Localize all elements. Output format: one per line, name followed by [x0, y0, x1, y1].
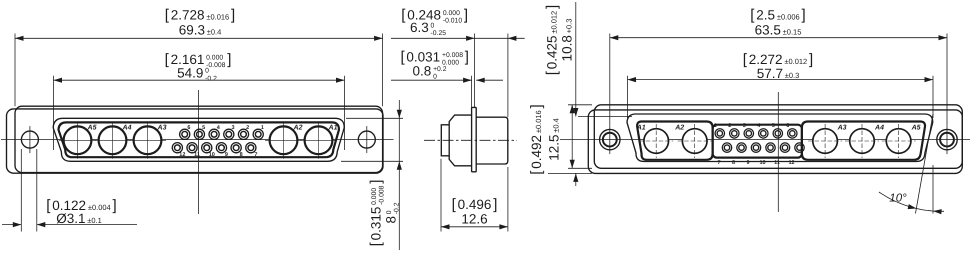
svg-text:]: ] — [368, 180, 385, 184]
svg-text:]: ] — [809, 51, 813, 68]
svg-text:±0.3: ±0.3 — [785, 71, 800, 80]
svg-text:+0.2: +0.2 — [433, 66, 447, 73]
svg-text:2: 2 — [246, 125, 249, 131]
svg-text:9: 9 — [225, 152, 228, 158]
svg-text:]: ] — [528, 104, 545, 108]
svg-text:A3: A3 — [837, 125, 847, 132]
svg-text:-0.2: -0.2 — [394, 202, 401, 214]
svg-text:11: 11 — [774, 160, 780, 166]
svg-text:1: 1 — [714, 123, 717, 129]
svg-text:2.272: 2.272 — [749, 52, 783, 67]
svg-text:+0.008: +0.008 — [442, 52, 463, 59]
svg-text:A3: A3 — [157, 124, 167, 131]
svg-text:0.000: 0.000 — [371, 188, 378, 205]
svg-text:12.6: 12.6 — [461, 211, 487, 226]
svg-text:3: 3 — [231, 125, 234, 131]
svg-text:2.728: 2.728 — [171, 8, 205, 23]
svg-text:]: ] — [464, 7, 468, 24]
svg-text:0.492: 0.492 — [529, 135, 544, 169]
svg-text:A1: A1 — [328, 124, 338, 131]
svg-text:±0.012: ±0.012 — [784, 57, 807, 66]
svg-text:11: 11 — [194, 152, 200, 158]
svg-text:±0.15: ±0.15 — [783, 28, 802, 37]
svg-text:±0.4: ±0.4 — [552, 118, 561, 133]
svg-text:7: 7 — [717, 160, 720, 166]
svg-text:0: 0 — [433, 74, 437, 81]
svg-text:5: 5 — [772, 123, 775, 129]
svg-text:A2: A2 — [293, 124, 303, 131]
svg-text:57.7: 57.7 — [757, 66, 783, 81]
svg-text:63.5: 63.5 — [755, 23, 781, 38]
svg-text:A5: A5 — [87, 124, 97, 131]
svg-text:A5: A5 — [911, 125, 921, 132]
svg-text:6: 6 — [786, 123, 789, 129]
svg-text:Ø3.1: Ø3.1 — [56, 211, 85, 226]
svg-text:-0.010: -0.010 — [443, 18, 462, 25]
svg-text:±0.1: ±0.1 — [87, 216, 102, 225]
svg-text:12.5: 12.5 — [547, 135, 562, 161]
svg-text:-0.008: -0.008 — [206, 62, 225, 69]
svg-text:9: 9 — [746, 160, 749, 166]
svg-text:2.5: 2.5 — [756, 8, 775, 23]
svg-text:+0.3: +0.3 — [565, 19, 574, 34]
svg-text:0: 0 — [431, 22, 435, 29]
svg-text:8: 8 — [732, 160, 735, 166]
svg-text:]: ] — [465, 49, 469, 66]
svg-text:7: 7 — [254, 152, 257, 158]
svg-text:69.3: 69.3 — [179, 23, 205, 38]
svg-text:10: 10 — [759, 160, 765, 166]
svg-text:10°: 10° — [889, 193, 907, 205]
svg-text:-0.2: -0.2 — [205, 76, 217, 83]
svg-text:0.8: 0.8 — [413, 64, 432, 79]
svg-text:±0.006: ±0.006 — [777, 13, 800, 22]
svg-text:12: 12 — [179, 152, 185, 158]
svg-text:12: 12 — [788, 160, 794, 166]
svg-text:]: ] — [227, 51, 231, 68]
svg-text:0.496: 0.496 — [458, 197, 492, 212]
svg-text:]: ] — [544, 5, 561, 9]
svg-text:0: 0 — [205, 68, 209, 75]
svg-text:-0.25: -0.25 — [431, 30, 447, 37]
svg-text:]: ] — [113, 197, 117, 214]
svg-text:A4: A4 — [122, 124, 132, 131]
svg-text:1: 1 — [261, 125, 264, 131]
svg-text:]: ] — [802, 7, 806, 24]
svg-text:8: 8 — [384, 216, 399, 224]
svg-text:A2: A2 — [674, 125, 684, 132]
svg-text:2: 2 — [728, 123, 731, 129]
svg-text:54.9: 54.9 — [177, 65, 203, 80]
svg-text:]: ] — [231, 7, 235, 24]
svg-text:10: 10 — [209, 152, 215, 158]
svg-text:A1: A1 — [636, 125, 646, 132]
svg-text:3: 3 — [743, 123, 746, 129]
svg-text:-0.008: -0.008 — [379, 185, 386, 204]
svg-text:5: 5 — [202, 125, 205, 131]
svg-text:0.000: 0.000 — [443, 10, 460, 17]
svg-text:0: 0 — [386, 210, 393, 214]
svg-text:6: 6 — [187, 125, 190, 131]
svg-text:10.8: 10.8 — [560, 35, 575, 61]
svg-text:0.315: 0.315 — [369, 207, 384, 241]
svg-text:0.000: 0.000 — [206, 54, 223, 61]
svg-text:0.031: 0.031 — [406, 50, 440, 65]
svg-text:±0.016: ±0.016 — [206, 13, 229, 22]
svg-text:±0.016: ±0.016 — [534, 110, 543, 133]
svg-text:±0.4: ±0.4 — [207, 28, 222, 37]
svg-text:A4: A4 — [874, 125, 884, 132]
svg-text:8: 8 — [240, 152, 243, 158]
svg-text:6.3: 6.3 — [410, 20, 429, 35]
svg-text:0.425: 0.425 — [545, 35, 560, 69]
svg-text:±0.012: ±0.012 — [550, 11, 559, 34]
svg-text:]: ] — [493, 196, 497, 213]
svg-text:±0.004: ±0.004 — [88, 203, 111, 212]
